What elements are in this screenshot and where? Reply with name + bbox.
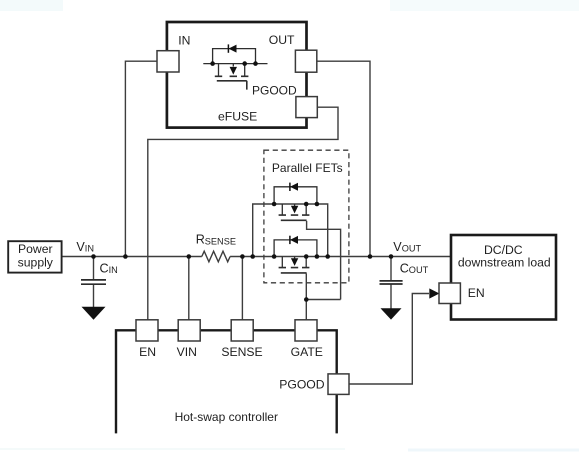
body diode Q1 [290, 183, 298, 191]
svg-text:downstream load: downstream load [458, 255, 551, 269]
legs Q2 [282, 257, 306, 268]
node dots eFUSE rail [210, 61, 215, 66]
pin PGOOD (eFUSE) [296, 97, 317, 118]
body diode loop [213, 49, 256, 64]
svg-text:eFUSE: eFUSE [218, 109, 257, 123]
hot-swap controller box U2 [116, 330, 337, 433]
node dots Q1 rail [272, 202, 277, 207]
pin OUT (eFUSE) [295, 50, 316, 72]
svg-text:GATE: GATE [291, 345, 323, 359]
wire gate of lower FET to GATE pin [305, 274, 307, 322]
eFUSE internal FET symbol [203, 49, 267, 90]
faint scan tint top-right [390, 0, 579, 11]
wire eFUSE PGOOD to controller EN [148, 107, 338, 321]
wire main input/output rail [62, 256, 451, 258]
pin GATE (controller) [295, 320, 317, 341]
wire eFUSE OUT to VOUT rail [317, 61, 370, 256]
wire gate junction branch [306, 299, 340, 301]
pin SENSE (controller) [231, 320, 253, 341]
body diode Q2 [290, 236, 298, 244]
dashed box Parallel FETs [264, 150, 349, 283]
eFUSE body diode [229, 45, 237, 53]
FET rail [203, 63, 267, 65]
capacitor COUT [380, 281, 403, 284]
node dot gate junction [304, 297, 309, 302]
svg-text:IN: IN [178, 33, 190, 47]
wire COUT bottom to ground [390, 285, 392, 309]
wire VIN pin stub [188, 257, 190, 322]
wire upper FET drain/source to rail [253, 204, 328, 257]
svg-text:Power: Power [18, 242, 53, 256]
ground for CIN [82, 307, 106, 320]
wire SENSE pin stub [241, 257, 243, 322]
wire eFUSE IN to VIN rail [125, 61, 157, 256]
pin PGOOD (controller) [328, 374, 349, 395]
lower parallel FET Q2 [274, 240, 317, 273]
pin EN (controller) [136, 320, 158, 341]
FET legs [219, 64, 245, 76]
power supply box [8, 241, 61, 272]
resistor RSENSE [202, 251, 230, 262]
body diode loop Q2 [274, 240, 317, 257]
arrow into DC/DC EN pin [429, 288, 439, 298]
pin EN (DC/DC) [439, 283, 460, 304]
svg-text:EN: EN [139, 345, 156, 359]
node dots main rail [91, 254, 96, 259]
pin IN (eFUSE) [157, 51, 179, 72]
svg-text:Parallel FETs: Parallel FETs [272, 161, 343, 175]
source arrow Q2 [291, 258, 298, 266]
wire CIN top [93, 257, 95, 280]
gate bar Q2 [281, 272, 307, 274]
source arrow Q1 [291, 206, 298, 214]
FET gate bar and lead [217, 81, 247, 90]
svg-text:supply: supply [18, 255, 54, 269]
contact bars Q2 [279, 267, 310, 269]
wire COUT top [390, 257, 392, 281]
capacitor CIN [81, 280, 106, 284]
gate bar Q1 [281, 219, 307, 221]
FET contact bars [215, 75, 249, 77]
body diode loop Q1 [274, 187, 317, 204]
svg-text:OUT: OUT [269, 33, 295, 47]
ground for COUT [381, 308, 402, 319]
legs Q1 [282, 204, 306, 215]
upper parallel FET Q1 [274, 187, 317, 221]
svg-text:SENSE: SENSE [221, 345, 262, 359]
svg-text:Hot-swap controller: Hot-swap controller [175, 410, 278, 424]
svg-text:EN: EN [468, 286, 485, 300]
wire controller PGOOD to DC/DC EN [349, 294, 429, 385]
eFUSE FET source arrow [230, 67, 237, 75]
wire CIN bottom to ground [93, 285, 95, 308]
contact bars Q1 [279, 214, 310, 216]
eFUSE box U1 [167, 22, 307, 128]
faint scan line bottom [0, 448, 345, 450]
faint scan tint top-left [0, 0, 63, 11]
svg-text:PGOOD: PGOOD [252, 84, 297, 98]
svg-text:VIN: VIN [177, 345, 197, 359]
svg-text:PGOOD: PGOOD [279, 377, 325, 391]
pin VIN (controller) [178, 320, 200, 341]
DC/DC downstream load box [451, 235, 556, 320]
wire gate of upper FET [307, 221, 341, 300]
